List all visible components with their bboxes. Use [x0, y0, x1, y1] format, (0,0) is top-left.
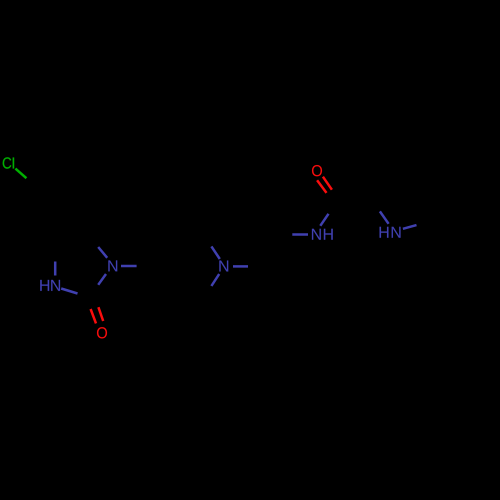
bond pipN-CH2 half (blue)	[233, 265, 248, 268]
atom label HN imidazolone N3 (blue)	[40, 280, 49, 291]
bond Cl-C5 half (green)	[15, 169, 26, 179]
bond N1-C7a half (blue)	[98, 247, 107, 258]
atom label N piperidine (blue)	[219, 260, 228, 271]
bond N1-C2 half (blue)	[98, 274, 106, 285]
atom label Cl (green)	[3, 157, 12, 168]
atom label N imidazolone N1 (blue)	[108, 260, 117, 271]
atom label O imidazolone (red)	[97, 327, 107, 338]
bond indoleN-C2ind half (blue)	[380, 211, 389, 223]
bond pipN-C5 half (blue)	[211, 274, 219, 286]
bond pipN-C3 half (blue)	[211, 246, 219, 259]
bond N1-C4pip half (blue)	[121, 265, 137, 268]
atom label HN indole (blue)	[380, 227, 389, 238]
double bond amide C=O halves (red)	[317, 180, 326, 193]
atom label O amide (red)	[312, 165, 322, 176]
atom label NH amide (blue)	[312, 229, 321, 240]
double bond C2=O halves (red)	[91, 309, 96, 323]
bond amideN-C(O) half (blue)	[320, 214, 328, 226]
bond N3-C2 half (blue)	[61, 289, 77, 294]
bond N3-C3a half (blue)	[54, 262, 57, 276]
bond amideN-CH2 half (blue)	[292, 233, 308, 236]
bond indoleN-C7aind half (blue)	[403, 225, 417, 229]
